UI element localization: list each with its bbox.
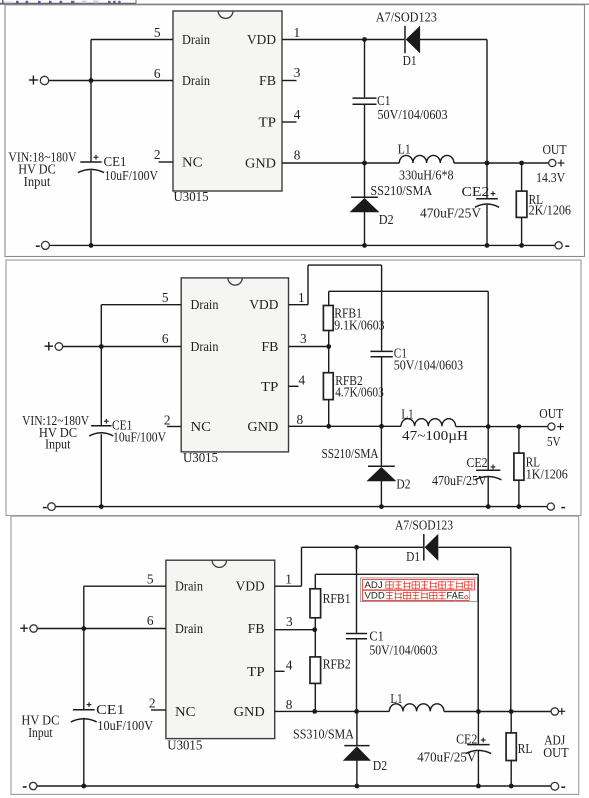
svg-text:ADJ: ADJ bbox=[365, 580, 383, 591]
svg-text:10uF/100V: 10uF/100V bbox=[105, 168, 159, 183]
svg-text:TP: TP bbox=[261, 379, 279, 394]
svg-text:L1: L1 bbox=[398, 141, 411, 156]
svg-text:2K/1206: 2K/1206 bbox=[529, 202, 572, 217]
svg-text:1K/1206: 1K/1206 bbox=[526, 466, 568, 481]
svg-text:Drain: Drain bbox=[182, 32, 210, 47]
svg-text:4: 4 bbox=[299, 372, 306, 387]
svg-text:6: 6 bbox=[154, 66, 161, 81]
svg-text:6: 6 bbox=[162, 331, 169, 346]
svg-text:4: 4 bbox=[294, 107, 301, 122]
svg-text:470uF/25V: 470uF/25V bbox=[417, 749, 476, 764]
svg-text:2: 2 bbox=[149, 696, 156, 711]
svg-text:VDD: VDD bbox=[247, 32, 276, 47]
svg-text:CE2: CE2 bbox=[456, 732, 477, 747]
svg-text:1: 1 bbox=[298, 290, 305, 305]
svg-text:5: 5 bbox=[154, 25, 161, 40]
svg-text:NC: NC bbox=[182, 155, 203, 170]
svg-text:1: 1 bbox=[294, 25, 301, 40]
svg-text:OUT: OUT bbox=[543, 142, 567, 157]
svg-text:8: 8 bbox=[286, 697, 293, 712]
svg-text:GND: GND bbox=[245, 156, 276, 171]
svg-text:FAE: FAE bbox=[447, 591, 465, 602]
svg-text:4.7K/0603: 4.7K/0603 bbox=[335, 385, 384, 400]
svg-text:D2: D2 bbox=[373, 758, 387, 773]
svg-text:GND: GND bbox=[247, 419, 278, 434]
svg-text:5: 5 bbox=[147, 572, 154, 587]
svg-text:CE2: CE2 bbox=[467, 455, 488, 470]
svg-text:14.3V: 14.3V bbox=[536, 170, 565, 185]
svg-text:10uF/100V: 10uF/100V bbox=[113, 430, 166, 445]
svg-text:Input: Input bbox=[28, 725, 53, 740]
svg-text:2: 2 bbox=[164, 413, 171, 428]
svg-text:RFB2: RFB2 bbox=[323, 657, 351, 672]
svg-text:NC: NC bbox=[191, 419, 212, 434]
svg-text:CE2: CE2 bbox=[462, 184, 490, 199]
svg-text:Drain: Drain bbox=[175, 621, 203, 636]
svg-text:8: 8 bbox=[297, 412, 304, 427]
svg-text:6: 6 bbox=[147, 613, 154, 628]
svg-text:GND: GND bbox=[234, 704, 265, 719]
svg-text:50V/104/0603: 50V/104/0603 bbox=[378, 107, 448, 122]
svg-text:Input: Input bbox=[24, 174, 51, 189]
svg-text:RL: RL bbox=[518, 741, 533, 756]
svg-text:D1: D1 bbox=[403, 53, 417, 68]
svg-text:C1: C1 bbox=[377, 93, 391, 108]
svg-text:OUT: OUT bbox=[539, 406, 563, 421]
svg-text:470uF/25V: 470uF/25V bbox=[420, 205, 481, 220]
svg-text:1: 1 bbox=[285, 572, 292, 587]
svg-text:U3015: U3015 bbox=[174, 189, 209, 204]
svg-text:47~100µH: 47~100µH bbox=[402, 428, 468, 443]
svg-text:CE1: CE1 bbox=[104, 154, 127, 169]
svg-text:3: 3 bbox=[286, 614, 293, 629]
svg-text:3: 3 bbox=[294, 65, 301, 80]
svg-text:50V/104/0603: 50V/104/0603 bbox=[394, 358, 464, 373]
svg-text:FB: FB bbox=[248, 621, 265, 636]
svg-text:VDD: VDD bbox=[249, 297, 278, 312]
svg-text:FB: FB bbox=[261, 339, 278, 354]
svg-text:Drain: Drain bbox=[191, 339, 219, 354]
svg-text:Input: Input bbox=[45, 437, 71, 452]
svg-text:Drain: Drain bbox=[182, 73, 210, 88]
svg-text:A7/SOD123: A7/SOD123 bbox=[395, 517, 453, 532]
svg-text:NC: NC bbox=[175, 704, 196, 719]
svg-text:Drain: Drain bbox=[191, 297, 219, 312]
svg-text:9.1K/0603: 9.1K/0603 bbox=[334, 318, 385, 333]
svg-text:U3015: U3015 bbox=[183, 450, 218, 465]
svg-text:SS210/SMA: SS210/SMA bbox=[370, 183, 432, 198]
svg-text:D1: D1 bbox=[406, 549, 420, 564]
svg-text:330uH/6*8: 330uH/6*8 bbox=[399, 167, 454, 182]
svg-text:FB: FB bbox=[259, 73, 276, 88]
svg-text:D2: D2 bbox=[396, 477, 410, 492]
svg-text:5: 5 bbox=[162, 290, 169, 305]
svg-text:50V/104/0603: 50V/104/0603 bbox=[369, 643, 437, 658]
svg-text:470uF/25V: 470uF/25V bbox=[432, 473, 487, 488]
svg-text:TP: TP bbox=[247, 664, 265, 679]
svg-text:OUT: OUT bbox=[543, 745, 568, 760]
svg-text:10uF/100V: 10uF/100V bbox=[97, 718, 153, 733]
svg-text:4: 4 bbox=[286, 657, 293, 672]
svg-text:Drain: Drain bbox=[175, 579, 203, 594]
svg-text:D2: D2 bbox=[379, 212, 394, 227]
svg-text:C1: C1 bbox=[369, 628, 383, 643]
svg-text:VDD: VDD bbox=[365, 591, 385, 602]
svg-text:5V: 5V bbox=[547, 434, 561, 449]
svg-text:L1: L1 bbox=[390, 691, 402, 706]
svg-text:2: 2 bbox=[154, 147, 161, 162]
svg-text:TP: TP bbox=[259, 115, 277, 130]
svg-text:RFB1: RFB1 bbox=[323, 591, 351, 606]
svg-text:U3015: U3015 bbox=[167, 738, 202, 753]
svg-text:SS210/SMA: SS210/SMA bbox=[322, 446, 379, 461]
svg-text:SS310/SMA: SS310/SMA bbox=[293, 727, 354, 742]
svg-text:3: 3 bbox=[300, 331, 307, 346]
svg-text:8: 8 bbox=[294, 147, 301, 162]
svg-text:VDD: VDD bbox=[236, 579, 265, 594]
svg-text:L1: L1 bbox=[401, 407, 413, 422]
svg-text:A7/SOD123: A7/SOD123 bbox=[376, 10, 437, 25]
svg-text:CE1: CE1 bbox=[96, 702, 125, 717]
